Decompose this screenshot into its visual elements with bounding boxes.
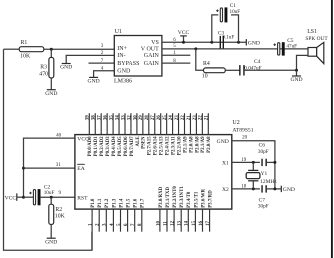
svg-text:10K: 10K xyxy=(55,213,66,219)
svg-text:22: 22 xyxy=(181,115,186,121)
svg-text:IN-: IN- xyxy=(117,53,125,59)
node C6/vertical junction xyxy=(273,161,276,164)
U2 pin 21 P2.0/A8 xyxy=(187,113,195,153)
U2 pin 34 P0.5/AD5 xyxy=(115,113,123,156)
pin number 31 xyxy=(56,163,62,168)
svg-text:31: 31 xyxy=(56,163,62,168)
speaker LS1 xyxy=(305,29,328,64)
U1 label V OUT xyxy=(141,46,159,52)
pin number 6 xyxy=(173,38,176,43)
U2 pin 32 P0.7/AD7 xyxy=(127,113,135,156)
svg-text:GND: GND xyxy=(45,239,57,245)
wire VCC to C2 xyxy=(24,196,34,198)
U2 pin 25 P2.4/A12 xyxy=(163,113,171,155)
node C7/vertical junction xyxy=(273,187,276,190)
wire C4 to speaker return xyxy=(244,69,297,71)
svg-text:47uF: 47uF xyxy=(286,43,297,49)
power VCC terminal left xyxy=(5,193,24,201)
U2 pin 16 P3.6/WR xyxy=(199,188,207,231)
svg-text:Y1: Y1 xyxy=(261,171,268,177)
svg-text:GND: GND xyxy=(88,79,100,85)
U2 label GND pin20 xyxy=(217,139,229,145)
scan border right edge xyxy=(331,0,333,258)
node R4 branch xyxy=(194,47,197,50)
svg-text:X2: X2 xyxy=(222,187,229,193)
svg-text:36: 36 xyxy=(104,115,109,121)
resistor R1 xyxy=(19,40,44,59)
node VCC rail/RST junction xyxy=(22,196,25,199)
svg-text:R3: R3 xyxy=(40,65,47,71)
svg-text:ALE: ALE xyxy=(136,136,141,147)
pin number 18 xyxy=(241,184,247,189)
svg-text:39: 39 xyxy=(86,115,91,121)
svg-text:10: 10 xyxy=(156,221,161,227)
svg-text:P3.3/INT1: P3.3/INT1 xyxy=(180,186,185,208)
svg-text:P0.7/AD7: P0.7/AD7 xyxy=(130,136,135,157)
ground below R3 xyxy=(45,90,57,97)
wire U1 pin1 GAIN stub xyxy=(162,54,190,56)
wire U2 pin19 X1 xyxy=(232,161,260,163)
svg-text:P2.0/A8: P2.0/A8 xyxy=(189,136,194,153)
svg-text:C4: C4 xyxy=(254,59,261,65)
wire U1 pin2 IN- to ground xyxy=(66,55,114,63)
svg-text:32: 32 xyxy=(127,115,132,121)
svg-text:P2.4/A12: P2.4/A12 xyxy=(166,136,171,155)
svg-text:10uF: 10uF xyxy=(230,9,241,15)
svg-text:18: 18 xyxy=(241,184,247,189)
wire U2 pin20 GND xyxy=(232,141,275,189)
svg-text:P1.7: P1.7 xyxy=(141,198,146,208)
svg-text:VS: VS xyxy=(151,40,159,46)
svg-text:GAIN: GAIN xyxy=(144,61,160,67)
svg-text:27: 27 xyxy=(151,115,156,121)
wire C1 left leg xyxy=(212,15,219,42)
U2 pin 14 P3.4/T0 xyxy=(185,191,193,232)
svg-text:38: 38 xyxy=(92,115,97,121)
svg-text:0.1uF: 0.1uF xyxy=(222,35,234,41)
wire R1 to U1 IN+ (pin3) xyxy=(44,48,115,50)
U1 label GND xyxy=(117,69,131,75)
wire junction to ground xyxy=(296,70,298,76)
op-amp U1 LM386 body xyxy=(114,29,162,84)
svg-text:GND: GND xyxy=(283,187,295,193)
svg-text:30pF: 30pF xyxy=(258,204,269,210)
U2 pin 38 P0.1/AD1 xyxy=(92,113,100,156)
svg-text:22: 22 xyxy=(199,115,204,121)
svg-text:12: 12 xyxy=(171,221,176,227)
svg-text:GND: GND xyxy=(248,41,260,47)
svg-text:P0.0/AD0: P0.0/AD0 xyxy=(88,136,93,157)
svg-text:P3.2/INT0: P3.2/INT0 xyxy=(173,186,178,208)
svg-text:U1: U1 xyxy=(115,29,122,35)
wire R2 top lead xyxy=(50,197,52,204)
wire R4 branch down xyxy=(196,49,204,70)
svg-text:P2.3/A11: P2.3/A11 xyxy=(172,136,177,155)
node junction R1/R3 xyxy=(50,48,53,51)
node crystal top junction xyxy=(252,161,255,164)
svg-text:15: 15 xyxy=(192,221,197,227)
U2 pin 23 P2.0/A8 xyxy=(193,113,201,153)
svg-text:P2.6/A14: P2.6/A14 xyxy=(154,136,159,155)
resistor R4 xyxy=(202,61,226,79)
svg-text:R2: R2 xyxy=(55,207,62,213)
U1 label BYPASS xyxy=(117,61,139,67)
U1 label VS xyxy=(151,40,159,46)
svg-text:GND: GND xyxy=(217,139,229,145)
U2 pin 2 P1.1 xyxy=(96,198,104,232)
capacitor C6 xyxy=(258,142,269,166)
svg-text:P1.1: P1.1 xyxy=(98,198,103,208)
svg-text:P0.5/AD5: P0.5/AD5 xyxy=(118,136,123,157)
ground terminal on VS rail xyxy=(246,39,260,46)
capacitor C4 xyxy=(240,59,262,76)
U1 label IN+ xyxy=(117,46,127,52)
svg-text:RST: RST xyxy=(77,195,88,201)
U2 pin 22 P2.1/A9 xyxy=(199,113,207,153)
svg-text:AT89S51: AT89S51 xyxy=(232,128,253,134)
svg-text:C6: C6 xyxy=(259,142,266,148)
svg-text:P0.6/AD6: P0.6/AD6 xyxy=(124,136,129,157)
U2 pin 33 P0.6/AD6 xyxy=(121,113,128,156)
U2 pin 27 P2.6/A14 xyxy=(151,113,159,155)
svg-text:30pF: 30pF xyxy=(258,149,269,155)
U2 pin 37 P0.2/AD2 xyxy=(98,113,106,156)
svg-text:470: 470 xyxy=(39,72,48,78)
wire P1.0 net: left rail from R1 down, along bottom, up to U2 pin 1 xyxy=(4,49,92,250)
U2 pin 36 P0.3/AD3 xyxy=(104,113,112,156)
svg-text:10K: 10K xyxy=(20,54,31,60)
wire U1 pin6 VS rail xyxy=(162,41,246,43)
svg-text:17: 17 xyxy=(206,221,211,227)
U2 pin 8 P1.7 xyxy=(138,198,146,232)
ground terminal at crystal xyxy=(281,186,295,193)
svg-text:P2.0/A8: P2.0/A8 xyxy=(207,136,212,153)
svg-text:P3.4/T0: P3.4/T0 xyxy=(187,191,192,208)
U2 label X2 xyxy=(222,187,229,193)
svg-text:P3.0/RXD: P3.0/RXD xyxy=(159,186,164,208)
svg-text:10uF: 10uF xyxy=(44,190,55,196)
svg-text:R1: R1 xyxy=(21,40,28,46)
svg-text:P1.4: P1.4 xyxy=(119,198,124,208)
svg-text:U2: U2 xyxy=(232,120,239,126)
svg-text:P0.2/AD2: P0.2/AD2 xyxy=(100,136,105,157)
svg-text:P2.7/A15: P2.7/A15 xyxy=(148,136,153,155)
wire U2 pin18 X2 xyxy=(232,188,260,190)
wire EA to U2 pin31 xyxy=(24,167,75,169)
U2 pin 17 P3.7/RD xyxy=(206,190,214,232)
svg-text:P1.5: P1.5 xyxy=(127,198,132,208)
ground at U1 pin4 xyxy=(88,77,100,84)
node crystal bottom junction xyxy=(252,187,255,190)
svg-text:30: 30 xyxy=(133,115,138,121)
svg-text:23: 23 xyxy=(193,115,198,121)
svg-text:37: 37 xyxy=(98,115,103,121)
svg-text:12MHz: 12MHz xyxy=(260,179,277,185)
svg-text:P3.7/RD: P3.7/RD xyxy=(209,190,214,208)
wire U1 pin5 V OUT line xyxy=(162,48,308,50)
svg-text:13: 13 xyxy=(178,221,183,227)
U2 pin 3 P1.2 xyxy=(103,198,111,232)
ground below R2 xyxy=(45,238,57,245)
pin number 5 xyxy=(173,44,176,49)
microcontroller U2 AT89S51 body xyxy=(75,120,254,209)
svg-text:P0.3/AD3: P0.3/AD3 xyxy=(106,136,111,157)
ground at speaker return xyxy=(290,76,302,83)
U2 pin 26 P2.5/A13 xyxy=(157,113,165,155)
U2 label X1 xyxy=(222,161,229,167)
svg-text:24: 24 xyxy=(169,115,174,121)
svg-text:GAIN: GAIN xyxy=(144,53,160,59)
svg-text:23: 23 xyxy=(175,115,180,121)
pin number 2 xyxy=(101,51,104,56)
svg-text:P0.4/AD4: P0.4/AD4 xyxy=(112,136,117,157)
capacitor C7 xyxy=(258,185,269,209)
svg-text:28: 28 xyxy=(145,115,150,121)
svg-text:35: 35 xyxy=(110,115,115,121)
svg-text:P0.1/AD1: P0.1/AD1 xyxy=(94,136,99,157)
svg-text:V OUT: V OUT xyxy=(141,46,159,52)
svg-text:P2.2/A10: P2.2/A10 xyxy=(177,136,182,155)
svg-text:19: 19 xyxy=(241,158,247,163)
wire R1 left lead xyxy=(4,48,20,50)
pin number 3 xyxy=(101,44,104,49)
U2 pin 30 ALE xyxy=(133,113,141,146)
U2 pin 15 P3.5/T1 xyxy=(192,191,200,232)
U2 label VCC xyxy=(77,136,89,142)
svg-text:GND: GND xyxy=(45,91,57,97)
U2 pin 29 PSEN xyxy=(139,113,147,149)
svg-text:X1: X1 xyxy=(222,161,229,167)
capacitor C3 xyxy=(218,30,235,48)
svg-text:33: 33 xyxy=(121,115,126,120)
svg-text:P3.6/WR: P3.6/WR xyxy=(201,188,206,207)
svg-text:16: 16 xyxy=(199,221,204,227)
pin number 40 xyxy=(56,134,62,139)
pin number 20 xyxy=(242,136,248,141)
U2 pin 7 P1.6 xyxy=(131,198,139,232)
svg-text:14: 14 xyxy=(185,221,190,227)
wire R4 to C4 xyxy=(225,69,240,71)
svg-text:IN+: IN+ xyxy=(117,46,127,52)
svg-text:20: 20 xyxy=(242,136,248,141)
svg-text:EA: EA xyxy=(77,166,84,172)
capacitor C5 polarized xyxy=(273,38,297,56)
svg-text:P1.2: P1.2 xyxy=(105,198,110,208)
U1 label IN- xyxy=(117,53,125,59)
wire R2 to ground xyxy=(50,224,52,238)
wire U1 pin4 GND to ground xyxy=(94,71,115,78)
svg-text:10: 10 xyxy=(202,73,208,79)
U2 pin 1 P1.0 xyxy=(89,198,97,250)
svg-text:11: 11 xyxy=(163,221,168,226)
svg-text:GND: GND xyxy=(290,77,302,83)
U2 label EA xyxy=(77,164,85,172)
pin number 9 xyxy=(58,191,61,196)
svg-text:VCC: VCC xyxy=(178,30,190,36)
U2 label RST xyxy=(77,195,88,201)
svg-text:25: 25 xyxy=(163,115,168,121)
svg-text:P2.1/A9: P2.1/A9 xyxy=(201,136,206,153)
wire C6 to vertical xyxy=(266,161,275,163)
svg-text:40: 40 xyxy=(56,134,62,139)
svg-text:26: 26 xyxy=(157,115,162,121)
resistor R3 xyxy=(39,57,54,78)
svg-text:PSEN: PSEN xyxy=(142,136,147,149)
svg-text:VCC: VCC xyxy=(5,195,17,201)
U2 pin 21 P2.0/A8 xyxy=(205,113,213,153)
svg-text:21: 21 xyxy=(205,115,210,121)
U2 pin 13 P3.3/INT1 xyxy=(178,186,186,232)
U2 pin 23 P2.2/A10 xyxy=(175,113,183,155)
power VCC above pin6 xyxy=(178,30,190,44)
svg-text:GND: GND xyxy=(117,69,131,75)
svg-text:LS1: LS1 xyxy=(307,29,317,35)
resistor R2 xyxy=(49,204,66,224)
svg-text:P1.0: P1.0 xyxy=(91,198,96,208)
node speaker/C4/ground junction xyxy=(295,69,298,72)
svg-text:P2.0/A8: P2.0/A8 xyxy=(195,136,200,153)
pin number 1 xyxy=(173,51,176,56)
svg-text:SPK OUT: SPK OUT xyxy=(305,36,328,42)
U2 pin 28 P2.7/A15 xyxy=(145,113,153,155)
svg-text:P2.1/A9: P2.1/A9 xyxy=(183,136,188,153)
wire C2 to U2 RST pin9 xyxy=(41,196,75,198)
node R2 branch xyxy=(50,196,53,199)
U2 pin 5 P1.4 xyxy=(117,198,125,232)
node EA junction xyxy=(22,167,25,170)
svg-text:P1.6: P1.6 xyxy=(134,198,139,208)
capacitor C2 polarized xyxy=(29,184,54,205)
crystal Y1 xyxy=(246,162,277,189)
U2 pin 4 P1.3 xyxy=(110,198,118,232)
svg-text:P2.5/A13: P2.5/A13 xyxy=(160,136,165,155)
svg-text:BYPASS: BYPASS xyxy=(117,61,139,67)
capacitor C1 polarized xyxy=(216,3,240,22)
svg-text:34: 34 xyxy=(115,115,120,121)
svg-text:C7: C7 xyxy=(259,197,266,203)
svg-text:R4: R4 xyxy=(203,61,210,67)
node C1 left junction xyxy=(210,41,213,44)
svg-text:29: 29 xyxy=(139,115,144,121)
wire U1 pin7 BYPASS stub xyxy=(89,62,115,64)
wire C1 right leg xyxy=(231,15,239,42)
svg-text:LM386: LM386 xyxy=(114,78,132,84)
U2 pin 6 P1.5 xyxy=(124,198,132,232)
svg-text:P3.1/TXD: P3.1/TXD xyxy=(166,187,171,208)
wire R3 top lead xyxy=(50,49,52,57)
pin number 7 xyxy=(101,59,104,64)
U2 pin 10 P3.0/RXD xyxy=(156,186,164,231)
U2 pin 24 P2.3/A11 xyxy=(169,113,177,155)
U1 label GAIN pin8 xyxy=(144,61,160,67)
ground at U1 pin2 xyxy=(60,64,72,71)
U2 pin 11 P3.1/TXD xyxy=(163,187,171,232)
U2 pin 35 P0.4/AD4 xyxy=(110,113,118,156)
svg-text:21: 21 xyxy=(187,115,192,121)
U2 pin 12 P3.2/INT0 xyxy=(171,186,179,232)
wire R3 to ground xyxy=(50,78,52,90)
pin number 19 xyxy=(241,158,247,163)
node C1 right junction xyxy=(237,41,240,44)
svg-text:P1.3: P1.3 xyxy=(112,198,117,208)
U2 pin 22 P2.1/A9 xyxy=(181,113,189,153)
wire VCC rail vertical to U2 pin40 xyxy=(24,138,75,197)
wire speaker return xyxy=(297,55,309,70)
pin number 4 xyxy=(101,67,104,72)
svg-text:GND: GND xyxy=(60,65,72,71)
U1 label GAIN pin1 xyxy=(144,53,160,59)
wire C7 to ground terminal xyxy=(266,188,281,190)
svg-text:P3.5/T1: P3.5/T1 xyxy=(194,191,199,208)
U2 pin 39 P0.0/AD0 xyxy=(86,113,94,156)
wire U1 pin8 GAIN stub xyxy=(162,62,190,64)
pin number 8 xyxy=(173,59,176,64)
